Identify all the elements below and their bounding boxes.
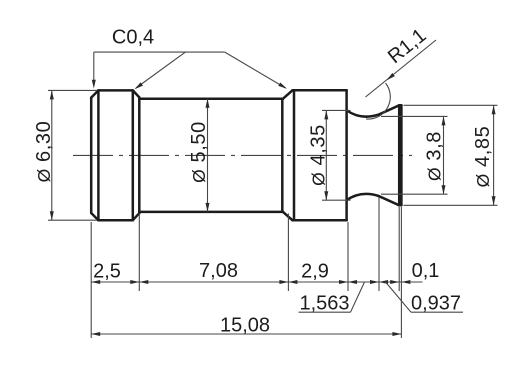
svg-text:2,9: 2,9 xyxy=(301,261,329,283)
part outline: collar right face xyxy=(138,97,141,213)
extension line at x=288.4 xyxy=(287,214,289,292)
dimension D6,30 extension bottom xyxy=(48,219,97,221)
part outline: groove top curve R1.1 xyxy=(347,110,379,116)
part outline: collar top-right chamfer xyxy=(133,90,140,97)
svg-text:Ø 4,85: Ø 4,85 xyxy=(472,126,494,188)
label C0,4 xyxy=(112,27,154,49)
dimension 1,563 arrows xyxy=(348,280,379,284)
dimension D6,30 line xyxy=(50,90,54,220)
chamfer note C0,4 leader to collar left chamfer xyxy=(92,52,96,88)
label 0,1 xyxy=(412,260,440,282)
part outline: flange top edge xyxy=(293,89,347,92)
part outline: collar left chamfer circle line xyxy=(97,90,100,220)
dimension D4,85 line xyxy=(492,105,496,205)
svg-text:C0,4: C0,4 xyxy=(112,27,154,49)
svg-text:1,563: 1,563 xyxy=(299,292,349,314)
radius note R1,1 leader line xyxy=(366,40,437,97)
chamfer note C0,4 leader to collar right chamfer xyxy=(135,52,186,89)
dimension 2,5 arrows xyxy=(91,280,139,284)
dimension D4,35 extension bottom xyxy=(322,199,351,201)
dimension 0,1 arrow xyxy=(401,280,410,284)
svg-text:Ø 6,30: Ø 6,30 xyxy=(33,121,55,183)
label D4,35 xyxy=(308,124,330,186)
part outline: mid cylinder bottom edge xyxy=(139,211,283,214)
part outline: collar bottom edge xyxy=(98,219,132,222)
extension line at x=379 xyxy=(378,198,380,292)
label 15,08 xyxy=(220,315,270,337)
part outline: right end face xyxy=(400,105,403,205)
svg-text:0,1: 0,1 xyxy=(412,260,440,282)
label 2,9 xyxy=(301,261,329,283)
label D5,50 xyxy=(188,121,210,183)
part outline: collar bottom-left chamfer xyxy=(91,213,98,220)
part outline: collar top-left chamfer xyxy=(91,90,98,97)
part outline: groove bottom curve R1.1 xyxy=(347,194,379,200)
part outline: taper top xyxy=(379,105,400,114)
svg-text:0,937: 0,937 xyxy=(411,292,461,314)
label D3,8 xyxy=(423,131,445,181)
svg-text:Ø 3,8: Ø 3,8 xyxy=(423,131,445,181)
part outline: taper-tip junction line xyxy=(398,105,401,205)
part outline: mid cylinder end face xyxy=(281,99,284,212)
label 7,08 xyxy=(199,260,238,282)
svg-text:Ø 4,35: Ø 4,35 xyxy=(308,124,330,186)
extension line at x=399.2 xyxy=(398,207,400,291)
dimension 7,08 arrows xyxy=(139,280,288,284)
chain dimension line xyxy=(91,281,422,283)
dimension D5,50 line xyxy=(206,99,210,212)
dimension D4,35 line xyxy=(324,110,328,200)
part outline: collar right chamfer circle line xyxy=(132,90,135,220)
svg-text:2,5: 2,5 xyxy=(93,261,121,283)
extension line at x=91.2 xyxy=(90,222,92,338)
part outline: step chamfer top xyxy=(283,90,293,98)
part outline: flange chamfer circle line xyxy=(293,90,296,220)
label 0,937 with leader xyxy=(386,282,464,314)
dimension D3,8 extension top xyxy=(381,115,448,117)
dimension D6,30 extension top xyxy=(48,89,97,91)
dimension 15,08 line xyxy=(91,332,401,336)
dimension D3,8 extension bottom xyxy=(381,193,448,195)
label D4,85 xyxy=(472,126,494,188)
dimension D4,85 extension top xyxy=(404,104,498,106)
dimension D3,8 line xyxy=(442,116,446,194)
part outline: groove left wall xyxy=(345,90,348,220)
dimension 2,9 arrows xyxy=(288,280,348,284)
part outline: mid cylinder top edge xyxy=(139,97,283,100)
svg-text:7,08: 7,08 xyxy=(199,260,238,282)
dimension D4,35 extension top xyxy=(322,109,351,111)
centerline xyxy=(73,154,412,156)
dimension 0,937 arrows xyxy=(379,280,399,284)
chamfer note C0,4 leader to step chamfer xyxy=(225,52,287,89)
part outline: flange bottom edge xyxy=(293,219,347,222)
chamfer note C0,4 leader shoulder xyxy=(94,51,225,53)
part outline: taper bottom xyxy=(379,196,400,205)
part outline: tip top edge xyxy=(399,104,401,107)
part outline: collar top edge xyxy=(98,89,132,92)
part outline: step chamfer bottom xyxy=(283,212,293,220)
extension line at x=139.3 xyxy=(138,214,140,292)
label 1,563 with leader xyxy=(299,282,365,314)
svg-text:Ø 5,50: Ø 5,50 xyxy=(188,121,210,183)
radius note R1,1 arc xyxy=(366,83,390,119)
label 2,5 xyxy=(93,261,121,283)
extension line at x=348 xyxy=(347,222,349,291)
part outline: tip bottom edge xyxy=(399,204,401,207)
svg-text:15,08: 15,08 xyxy=(220,315,270,337)
part outline: collar left face xyxy=(90,98,93,213)
dimension D4,85 extension bottom xyxy=(404,204,498,206)
label R1,1 xyxy=(384,24,431,68)
extension line at x=401.4 xyxy=(400,207,402,338)
part outline: collar bottom-right chamfer xyxy=(133,213,140,220)
label D6,30 xyxy=(33,121,55,183)
